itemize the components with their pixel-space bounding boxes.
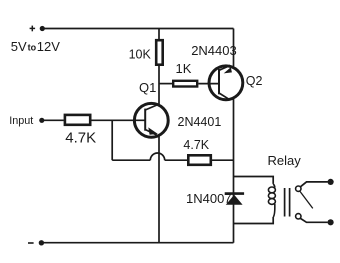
diode D1 1N4007 flyback	[225, 194, 244, 205]
node: positive terminal dot	[40, 26, 45, 31]
relay armature	[300, 191, 313, 208]
plus terminal symbol	[30, 26, 35, 32]
wire: NO contact to bottom terminal	[300, 218, 327, 222]
wire: Q1 emitter down to ground rail	[158, 135, 160, 242]
svg-text:to: to	[28, 43, 37, 53]
wire: junction to R4	[159, 83, 173, 85]
relay switch common contact	[296, 186, 301, 191]
node: input terminal dot	[39, 118, 44, 123]
node: relay bottom terminal dot	[328, 219, 334, 225]
wire: R4 to Q2 base	[198, 83, 219, 85]
wire: common contact to top terminal	[300, 182, 327, 187]
node: negative terminal dot	[39, 240, 44, 245]
wire: negative ground rail	[44, 242, 234, 244]
relay core bars	[285, 188, 290, 217]
svg-text:2N4403: 2N4403	[191, 43, 237, 58]
node: relay top terminal dot	[328, 179, 334, 185]
wire: relay coil bottom lead	[234, 217, 274, 224]
svg-text:1N4007: 1N4007	[186, 191, 232, 206]
svg-text:Relay: Relay	[268, 153, 302, 168]
resistor R1 4.7K input	[65, 115, 90, 125]
svg-text:Input: Input	[9, 115, 33, 127]
svg-text:4.7K: 4.7K	[65, 130, 96, 147]
wire: R3 to Q2 collector column	[212, 159, 234, 161]
wire: R1 to Q1 base	[91, 119, 145, 121]
svg-text:12V: 12V	[37, 39, 60, 54]
wire: positive supply rail	[44, 28, 234, 30]
wire: Q2 emitter up to rail	[233, 29, 235, 67]
label: supply voltage 5V to 12V	[11, 39, 60, 54]
svg-text:5V: 5V	[11, 39, 27, 54]
resistor R3 4.7K middle	[188, 155, 211, 165]
wire: input dot to R1	[44, 119, 64, 121]
wire: Q2 collector down to ground rail	[233, 99, 235, 243]
relay switch NO contact	[296, 214, 301, 219]
wire: relay coil top lead	[234, 177, 274, 184]
minus terminal symbol	[28, 242, 34, 244]
wire: R2 to Q1 collector junction	[158, 66, 160, 105]
svg-text:4.7K: 4.7K	[183, 138, 209, 152]
resistor R2 10K	[156, 40, 163, 64]
wire: rail down to R2	[158, 29, 160, 40]
wire hop over Q1 emitter line	[150, 153, 164, 160]
transistor Q1 2N4401 NPN	[134, 103, 168, 137]
wire: branch from input line down to middle line	[111, 120, 113, 160]
transistor Q2 2N4403 PNP	[209, 65, 243, 100]
relay coil K1	[268, 184, 275, 217]
resistor R4 1K	[173, 81, 197, 87]
wire: middle line left segment	[112, 159, 150, 161]
svg-text:2N4401: 2N4401	[178, 115, 222, 129]
svg-text:1K: 1K	[176, 61, 192, 76]
svg-text:Q1: Q1	[139, 80, 156, 95]
svg-text:10K: 10K	[129, 47, 152, 61]
wire: hop to R3	[165, 159, 188, 161]
svg-text:Q2: Q2	[246, 74, 263, 88]
